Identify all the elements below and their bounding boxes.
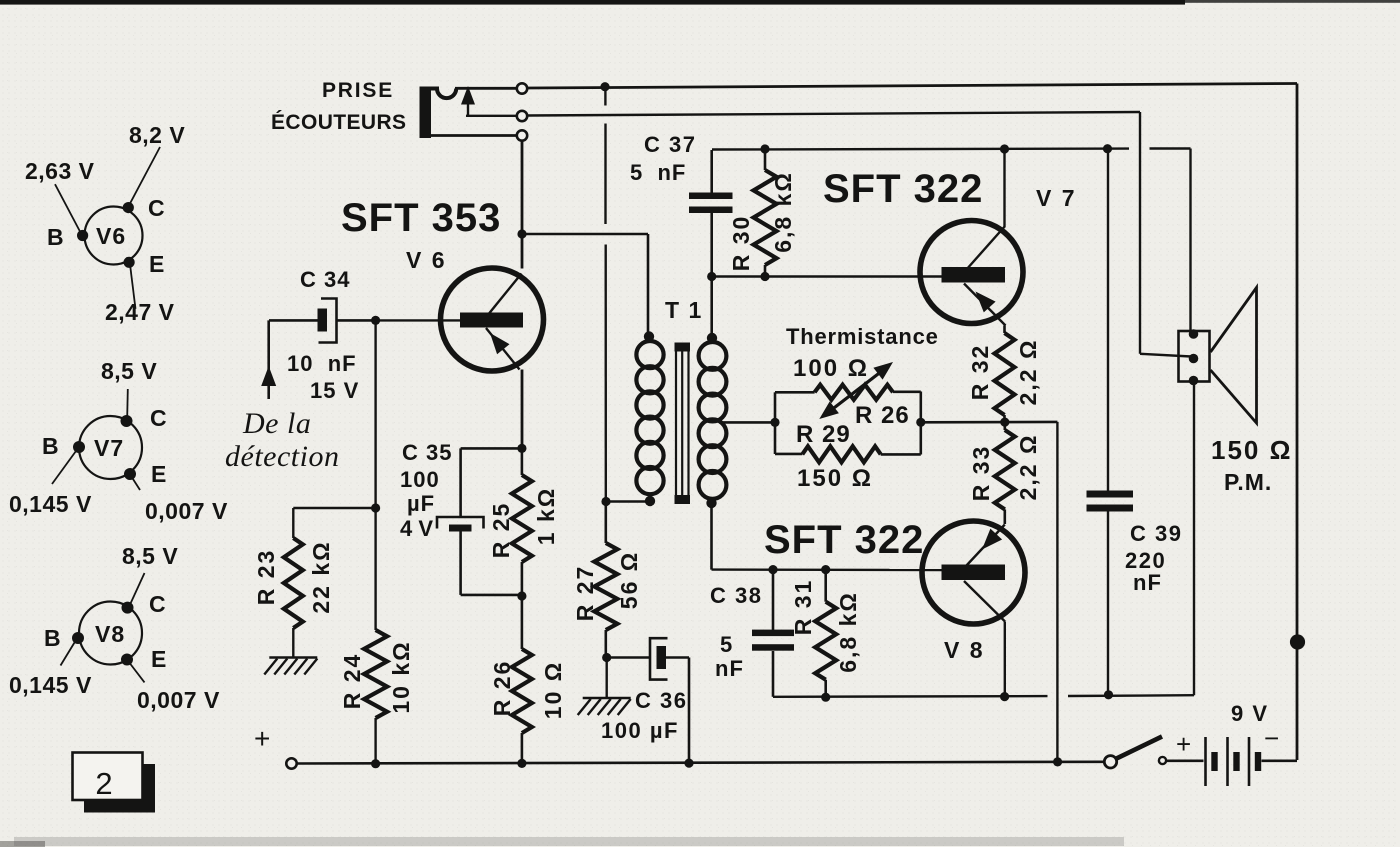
wire secondary center tap bbox=[719, 421, 775, 424]
V8 pin C bbox=[122, 573, 167, 617]
svg-text:ÉCOUTEURS: ÉCOUTEURS bbox=[271, 111, 406, 134]
wire jack-bottom down to V6 collector bbox=[521, 141, 524, 269]
label R25 bbox=[488, 487, 559, 559]
svg-text:4 V: 4 V bbox=[400, 516, 433, 541]
terminal plus input bbox=[286, 758, 296, 768]
wire primary bottom bbox=[606, 500, 646, 503]
svg-text:SFT 322: SFT 322 bbox=[764, 518, 924, 562]
svg-text:C 38: C 38 bbox=[710, 583, 762, 608]
svg-text:56 Ω: 56 Ω bbox=[616, 551, 642, 609]
svg-text:10 kΩ: 10 kΩ bbox=[388, 640, 414, 713]
svg-text:R 29: R 29 bbox=[796, 421, 851, 448]
wire jack-top to battery minus (top rail) bbox=[528, 84, 1297, 761]
node on battery wire bbox=[1290, 634, 1305, 649]
jack contact top bbox=[517, 83, 527, 93]
junction rail / R24 bbox=[371, 759, 380, 768]
capacitor C38 bbox=[752, 570, 794, 697]
label C39 bbox=[1125, 521, 1182, 595]
svg-text:nF: nF bbox=[1133, 570, 1162, 595]
svg-text:2,47 V: 2,47 V bbox=[105, 299, 175, 325]
svg-text:C 35: C 35 bbox=[402, 440, 452, 465]
svg-text:V6: V6 bbox=[96, 223, 126, 249]
svg-text:C 39: C 39 bbox=[1130, 521, 1182, 546]
svg-text:0,007 V: 0,007 V bbox=[145, 498, 228, 524]
wire V6 emitter down bbox=[521, 370, 524, 445]
label R30 bbox=[728, 171, 796, 271]
jack contact bottom bbox=[517, 130, 527, 140]
label C35 bbox=[400, 440, 452, 541]
svg-text:B: B bbox=[42, 433, 59, 459]
svg-text:22 kΩ: 22 kΩ bbox=[308, 540, 334, 613]
svg-text:2,63 V: 2,63 V bbox=[25, 158, 95, 184]
speaker HP 150 ohm bbox=[1179, 288, 1257, 424]
junction thermistance right bbox=[916, 418, 925, 427]
svg-text:100 µF: 100 µF bbox=[601, 718, 679, 743]
wire R23 branch bbox=[293, 508, 375, 538]
wire R23 to ground bbox=[292, 628, 294, 657]
junction C34 / base divider bbox=[371, 316, 380, 325]
svg-text:5: 5 bbox=[720, 632, 733, 657]
svg-text:E: E bbox=[151, 646, 167, 672]
svg-text:6,8 kΩ: 6,8 kΩ bbox=[835, 591, 861, 673]
svg-text:V8: V8 bbox=[95, 621, 125, 647]
V8 pinout circle bbox=[79, 602, 142, 665]
svg-text:V 8: V 8 bbox=[944, 637, 985, 663]
junction rail / R26 bbox=[517, 759, 526, 768]
junction R31 top bbox=[821, 565, 830, 574]
svg-text:15 V: 15 V bbox=[310, 378, 359, 403]
label De la detection bbox=[225, 407, 339, 473]
resistor R26 bbox=[512, 596, 532, 764]
label 150 ohm P.M. bbox=[1211, 435, 1292, 495]
transformer T1 secondary bbox=[699, 277, 727, 509]
svg-text:R 24: R 24 bbox=[339, 653, 365, 710]
svg-text:8,2 V: 8,2 V bbox=[129, 122, 185, 148]
junction C37 / V7 base line bbox=[707, 272, 716, 281]
svg-text:R 31: R 31 bbox=[790, 579, 816, 636]
svg-text:5 nF: 5 nF bbox=[630, 160, 686, 185]
svg-text:V7: V7 bbox=[94, 435, 124, 461]
wire V8 collector down bbox=[1004, 622, 1006, 697]
resistor R31 bbox=[815, 570, 836, 698]
scan edge strip top bbox=[0, 0, 1400, 5]
junction R27 / C36 / ground bbox=[602, 653, 611, 662]
V6 pin C bbox=[123, 147, 165, 221]
svg-text:2,2 Ω: 2,2 Ω bbox=[1015, 434, 1041, 501]
resistor R30 bbox=[754, 150, 777, 277]
switch bbox=[1104, 737, 1166, 769]
svg-text:10 Ω: 10 Ω bbox=[540, 661, 566, 719]
svg-text:R 32: R 32 bbox=[967, 344, 993, 401]
junction R31 bottom bbox=[821, 693, 830, 702]
junction C38 top bbox=[768, 565, 777, 574]
transformer T1 core bbox=[675, 343, 691, 505]
svg-text:détection: détection bbox=[225, 440, 339, 473]
svg-text:9 V: 9 V bbox=[1231, 701, 1269, 726]
input from detection wire with arrow bbox=[261, 320, 276, 399]
V6 pin B bbox=[47, 184, 88, 250]
svg-text:0,007 V: 0,007 V bbox=[137, 687, 220, 713]
svg-text:−: − bbox=[1264, 723, 1279, 753]
resistor R25 bbox=[512, 448, 532, 596]
svg-text:SFT 322: SFT 322 bbox=[823, 167, 983, 211]
V7 pin E bbox=[124, 461, 167, 490]
svg-text:2,2 Ω: 2,2 Ω bbox=[1015, 339, 1041, 406]
resistor R24 bbox=[364, 630, 387, 718]
wire bottom output rail to speaker, hop over output-node wire bbox=[773, 382, 1194, 697]
ground below R27 bbox=[578, 658, 631, 716]
junction V6 emitter / R25 / C35 bbox=[517, 444, 526, 453]
label R26 R29 values bbox=[796, 402, 910, 492]
label R33 bbox=[968, 434, 1041, 502]
resistor R33 bbox=[995, 422, 1015, 524]
svg-text:C: C bbox=[150, 405, 167, 431]
junction V8 collector / bottom output rail bbox=[1000, 692, 1009, 701]
V6 pinout circle bbox=[85, 207, 143, 265]
label C34 value bbox=[287, 351, 359, 403]
svg-text:C 37: C 37 bbox=[644, 132, 696, 157]
svg-text:De la: De la bbox=[242, 407, 311, 440]
junction rail / C36 bbox=[684, 759, 693, 768]
capacitor C39 bbox=[1087, 150, 1134, 695]
wire base divider vertical bbox=[374, 320, 376, 763]
thermistor R26 parallel R29 network bbox=[775, 385, 921, 463]
capacitor C36 bbox=[607, 638, 689, 763]
wire switch to battery bbox=[1167, 759, 1204, 762]
V7 pin C bbox=[121, 389, 168, 431]
label C36 bbox=[601, 688, 687, 743]
thermistor arrow bbox=[819, 362, 893, 419]
svg-text:R 25: R 25 bbox=[488, 502, 514, 559]
svg-text:+: + bbox=[1176, 729, 1191, 759]
svg-text:150 Ω: 150 Ω bbox=[1211, 435, 1292, 465]
label R23 bbox=[253, 540, 334, 613]
wire V7 base bbox=[712, 275, 944, 277]
label C37 bbox=[630, 132, 696, 185]
resistor R27 bbox=[594, 502, 617, 658]
svg-text:10 nF: 10 nF bbox=[287, 351, 357, 376]
svg-text:T 1: T 1 bbox=[665, 297, 703, 323]
svg-text:R 27: R 27 bbox=[572, 565, 598, 622]
junction R30 bottom bbox=[760, 272, 769, 281]
battery 9V bbox=[1206, 737, 1259, 786]
svg-text:C: C bbox=[148, 195, 165, 221]
svg-text:C: C bbox=[149, 591, 166, 617]
wire secondary bottom to V8 base bbox=[712, 503, 945, 570]
label R24 bbox=[339, 640, 414, 713]
svg-text:V 7: V 7 bbox=[1036, 185, 1077, 211]
svg-text:C 36: C 36 bbox=[635, 688, 687, 713]
junction thermistance left bbox=[770, 418, 779, 427]
svg-text:PRISE: PRISE bbox=[322, 79, 394, 102]
capacitor C37 bbox=[689, 150, 733, 277]
wire bottom supply rail bbox=[297, 762, 1104, 764]
svg-text:B: B bbox=[44, 625, 61, 651]
svg-text:E: E bbox=[151, 461, 167, 487]
label R32 bbox=[967, 339, 1041, 406]
wire output node bbox=[921, 422, 1058, 762]
svg-text:6,8 kΩ: 6,8 kΩ bbox=[770, 171, 796, 253]
junction V6 collector branch bbox=[517, 229, 526, 238]
svg-text:SFT 353: SFT 353 bbox=[341, 196, 501, 240]
figure number box bbox=[73, 753, 156, 813]
junction C39 top bbox=[1103, 144, 1112, 153]
label Thermistance bbox=[786, 324, 939, 382]
wire V7 collector bbox=[1003, 152, 1005, 228]
wire output top rail bbox=[712, 149, 1191, 333]
jack contact middle bbox=[517, 111, 527, 121]
wire V6 base bbox=[377, 319, 460, 321]
svg-text:+: + bbox=[254, 723, 270, 754]
junction output node / emitters bbox=[1000, 418, 1009, 427]
resistor R32 bbox=[995, 326, 1015, 422]
junction R23 branch bbox=[371, 503, 380, 512]
wire battery to right rail bbox=[1262, 759, 1298, 762]
svg-text:1 kΩ: 1 kΩ bbox=[533, 487, 559, 545]
label R26 bbox=[489, 660, 566, 720]
ground below R23 bbox=[264, 658, 317, 675]
junction R25 / R26 / C35 bbox=[517, 591, 526, 600]
svg-text:E: E bbox=[149, 251, 165, 277]
svg-text:µF: µF bbox=[407, 491, 435, 516]
svg-text:2: 2 bbox=[95, 766, 112, 801]
svg-text:B: B bbox=[47, 224, 64, 250]
V7 pinout circle bbox=[79, 416, 142, 479]
capacitor C35 loop bbox=[437, 448, 522, 595]
wire V6 collector branch to transformer primary bbox=[522, 234, 648, 334]
V8 pin B bbox=[44, 625, 84, 666]
jack J1 body bbox=[420, 87, 518, 139]
svg-text:R 30: R 30 bbox=[728, 215, 754, 272]
svg-text:R 26: R 26 bbox=[855, 402, 910, 429]
svg-text:R 33: R 33 bbox=[968, 445, 994, 502]
svg-text:P.M.: P.M. bbox=[1224, 469, 1272, 495]
label PRISE ECOUTEURS bbox=[271, 79, 406, 134]
svg-text:150 Ω: 150 Ω bbox=[797, 465, 873, 492]
label R31 bbox=[790, 579, 861, 673]
svg-text:8,5 V: 8,5 V bbox=[122, 543, 178, 569]
V7 pin B bbox=[42, 433, 85, 484]
svg-text:8,5 V: 8,5 V bbox=[101, 358, 157, 384]
resistor R23 bbox=[284, 538, 303, 628]
svg-text:100: 100 bbox=[400, 467, 440, 492]
V6 pin E bbox=[124, 251, 165, 309]
label R27 bbox=[572, 551, 642, 622]
junction rail / output-node wire bbox=[1053, 757, 1062, 766]
junction C39 bottom bbox=[1104, 690, 1113, 699]
transistor V8 bbox=[922, 521, 1025, 624]
label C38 bbox=[710, 583, 762, 681]
junction R30 top bbox=[760, 144, 769, 153]
capacitor C34 bbox=[269, 299, 376, 343]
jack plug arrow bbox=[461, 86, 475, 116]
svg-text:R 23: R 23 bbox=[253, 549, 279, 606]
svg-text:nF: nF bbox=[715, 656, 744, 681]
svg-text:C 34: C 34 bbox=[300, 267, 350, 292]
wire jack-middle to speaker bbox=[466, 112, 1191, 357]
svg-text:0,145 V: 0,145 V bbox=[9, 672, 92, 698]
junction center column / primary bottom bbox=[601, 497, 610, 506]
svg-text:Thermistance: Thermistance bbox=[786, 324, 939, 349]
transistor V7 bbox=[920, 221, 1023, 326]
svg-text:V 6: V 6 bbox=[406, 247, 447, 273]
junction V7 collector / top rail bbox=[1000, 144, 1009, 153]
V8 pin E bbox=[121, 646, 167, 682]
svg-text:0,145 V: 0,145 V bbox=[9, 491, 92, 517]
wire center column (jack top to R27), with hops bbox=[604, 91, 607, 501]
transistor V6 bbox=[441, 268, 544, 371]
scan edge strip bottom bbox=[0, 837, 1124, 847]
svg-text:100 Ω: 100 Ω bbox=[793, 355, 869, 382]
transformer T1 primary bbox=[636, 331, 663, 506]
junction jack-top / center column bbox=[600, 82, 609, 91]
svg-text:R 26: R 26 bbox=[489, 660, 515, 717]
